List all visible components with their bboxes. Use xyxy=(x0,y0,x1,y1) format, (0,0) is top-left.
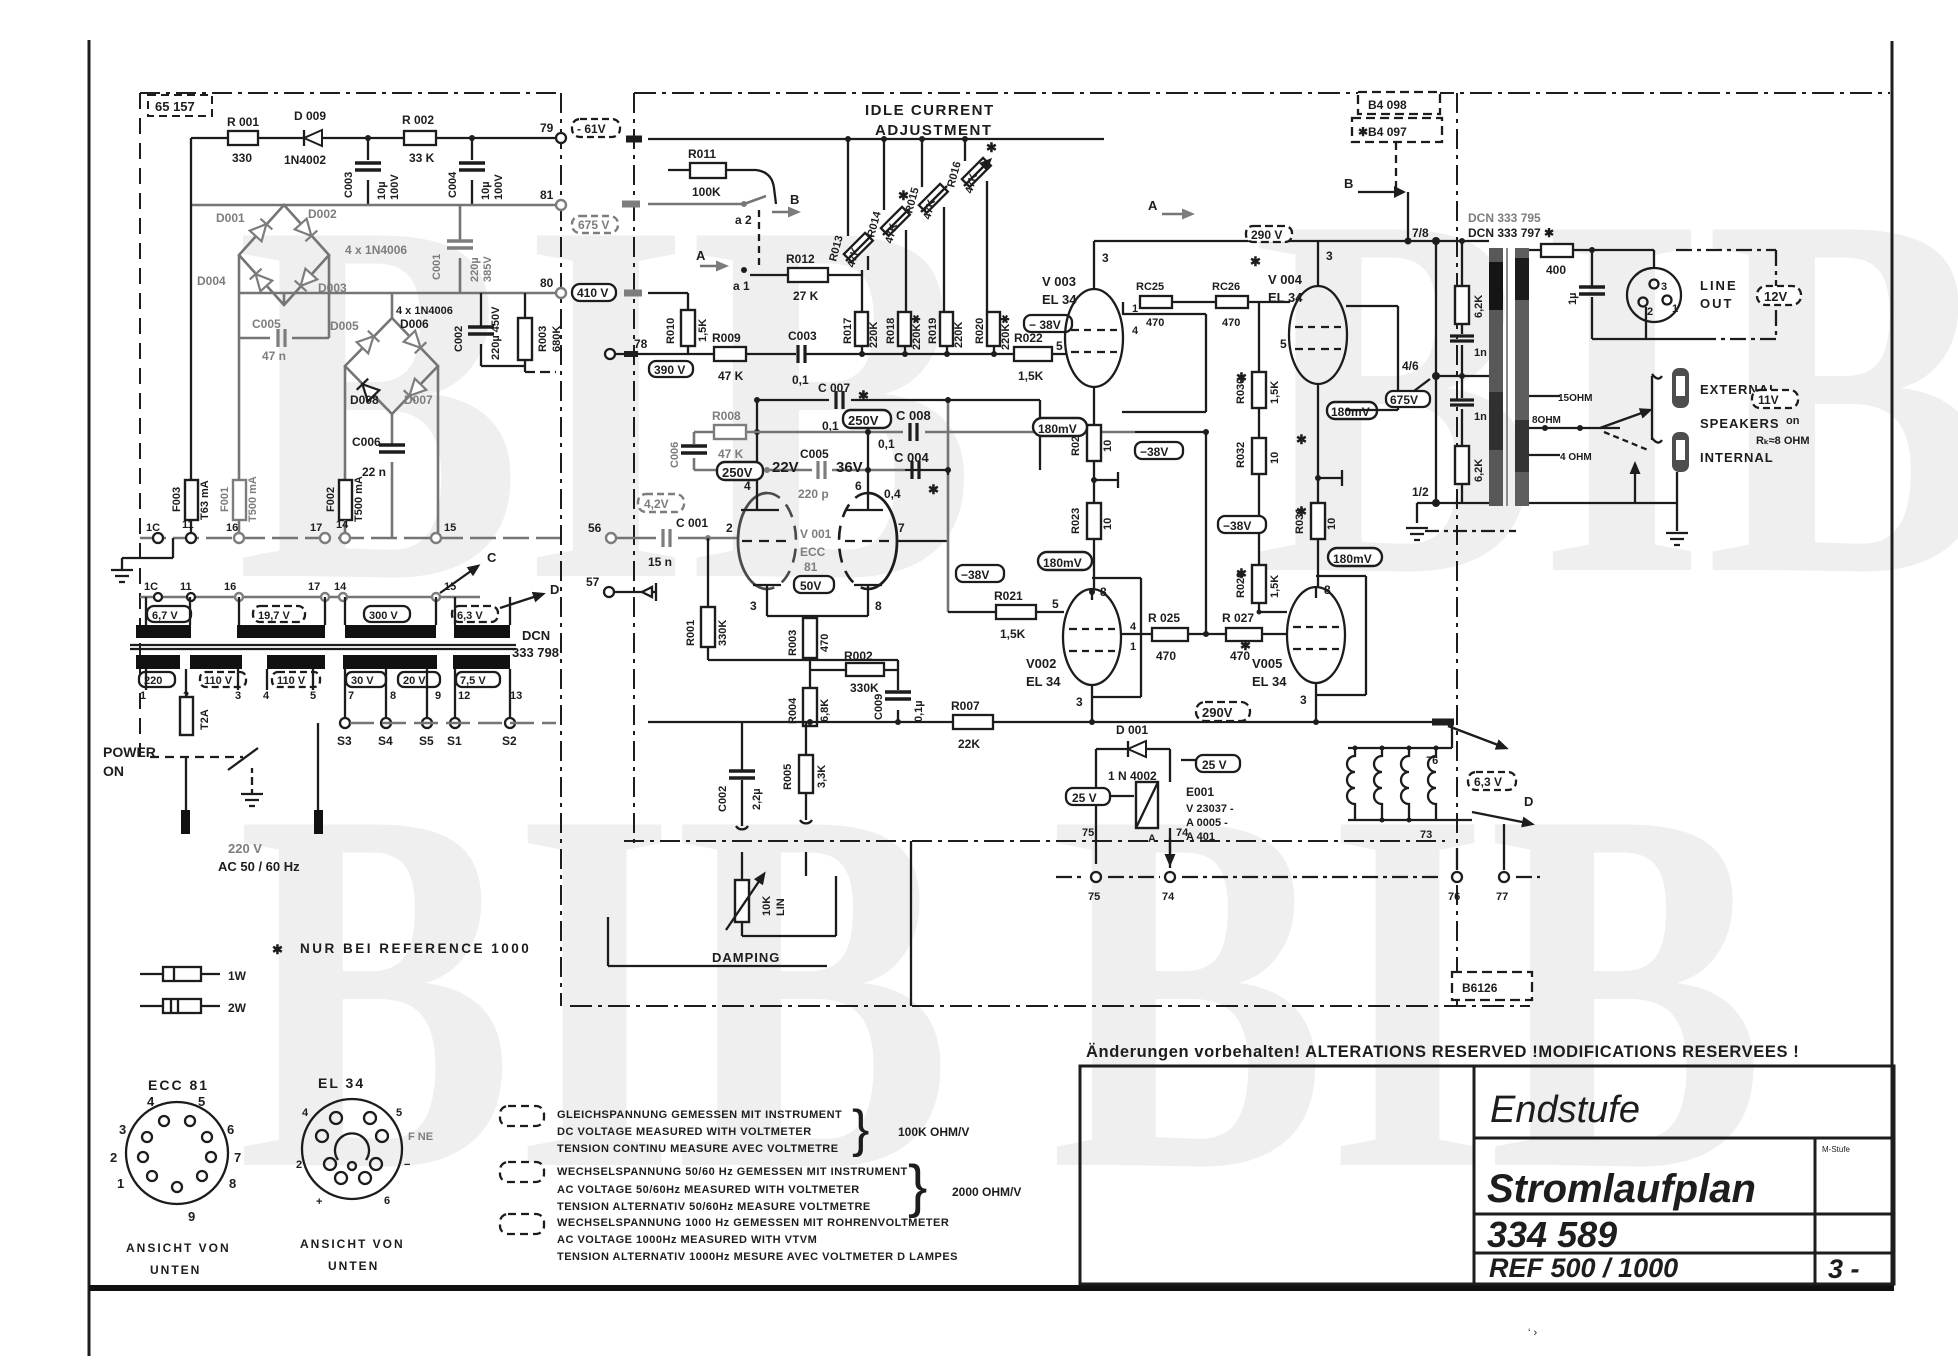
svg-text:6,3 V: 6,3 V xyxy=(457,610,483,622)
svg-text:220µ 450V: 220µ 450V xyxy=(490,306,502,360)
svg-text:Rₖ≈8 OHM: Rₖ≈8 OHM xyxy=(1756,435,1810,447)
svg-text:250V: 250V xyxy=(848,413,879,428)
svg-text:R 025: R 025 xyxy=(1148,611,1180,625)
svg-text:1,5K: 1,5K xyxy=(1018,369,1044,383)
svg-text:D: D xyxy=(1524,794,1533,809)
svg-text:5: 5 xyxy=(310,690,316,702)
svg-text:4,2V: 4,2V xyxy=(644,497,669,511)
svg-text:110 V: 110 V xyxy=(204,675,233,687)
svg-text:✱: ✱ xyxy=(1296,504,1307,519)
svg-text:4 x 1N4006: 4 x 1N4006 xyxy=(345,243,407,257)
svg-text:WECHSELSPANNUNG 1000 Hz GEME: WECHSELSPANNUNG 1000 Hz GEMESSEN MIT ROH… xyxy=(557,1217,949,1229)
svg-text:14: 14 xyxy=(334,581,347,593)
svg-text:100V: 100V xyxy=(493,174,505,200)
svg-text:TENSION ALTERNATIV 50/60Hz ME: TENSION ALTERNATIV 50/60Hz MEASURE VOLTM… xyxy=(557,1201,871,1213)
svg-text:S2: S2 xyxy=(502,734,517,748)
svg-text:17: 17 xyxy=(308,581,320,593)
svg-text:3: 3 xyxy=(750,599,757,613)
svg-text:47 K: 47 K xyxy=(718,447,744,461)
svg-text:F002: F002 xyxy=(325,487,337,512)
svg-text:675V: 675V xyxy=(1390,393,1418,407)
svg-text:74: 74 xyxy=(1162,891,1175,903)
svg-text:−38V: −38V xyxy=(961,568,989,582)
svg-text:3: 3 xyxy=(119,1122,126,1137)
svg-text:74: 74 xyxy=(1176,827,1189,839)
svg-text:3: 3 xyxy=(235,690,241,702)
svg-text:C: C xyxy=(487,550,497,565)
svg-text:75: 75 xyxy=(1082,827,1094,839)
svg-text:7: 7 xyxy=(234,1150,241,1165)
svg-text:NUR BEI REFERENCE 1000: NUR BEI REFERENCE 1000 xyxy=(300,941,531,956)
svg-text:9: 9 xyxy=(188,1209,195,1224)
svg-text:C001: C001 xyxy=(431,254,443,280)
svg-text:27 K: 27 K xyxy=(793,289,819,303)
svg-text:6,2K: 6,2K xyxy=(1473,459,1485,482)
svg-text:F003: F003 xyxy=(171,487,183,512)
svg-text:C005: C005 xyxy=(800,447,829,461)
svg-text:5: 5 xyxy=(1052,597,1059,611)
svg-text:2: 2 xyxy=(296,1159,302,1171)
svg-text:S4: S4 xyxy=(378,734,393,748)
svg-text:330K: 330K xyxy=(717,620,729,646)
svg-text:10: 10 xyxy=(1102,440,1114,452)
svg-text:T500 mA: T500 mA xyxy=(353,476,365,522)
svg-text:470: 470 xyxy=(1156,649,1176,663)
svg-text:180mV: 180mV xyxy=(1043,556,1082,570)
svg-text:DCN 333 797 ✱: DCN 333 797 ✱ xyxy=(1468,226,1554,240)
svg-text:6,7 V: 6,7 V xyxy=(152,610,178,622)
svg-text:4 x 1N4006: 4 x 1N4006 xyxy=(396,305,453,317)
svg-text:3 -: 3 - xyxy=(1828,1254,1860,1284)
svg-text:B: B xyxy=(1344,176,1353,191)
svg-text:47 K: 47 K xyxy=(718,369,744,383)
svg-text:4: 4 xyxy=(1130,621,1137,633)
svg-text:680K: 680K xyxy=(551,326,563,352)
svg-text:7/8: 7/8 xyxy=(1412,226,1429,240)
svg-text:12V: 12V xyxy=(1764,289,1787,304)
svg-text:S3: S3 xyxy=(337,734,352,748)
svg-text:RC25: RC25 xyxy=(1136,281,1164,293)
svg-text:D007: D007 xyxy=(404,393,433,407)
svg-text:1N4002: 1N4002 xyxy=(284,153,326,167)
svg-text:LINE: LINE xyxy=(1700,278,1738,293)
svg-text:100K OHM/V: 100K OHM/V xyxy=(898,1125,969,1139)
svg-text:5: 5 xyxy=(198,1094,205,1109)
svg-text:57: 57 xyxy=(586,575,600,589)
svg-text:A 401: A 401 xyxy=(1186,831,1215,843)
svg-text:8OHM: 8OHM xyxy=(1532,415,1561,426)
svg-text:EL 34: EL 34 xyxy=(1042,292,1077,307)
svg-text:SPEAKERS: SPEAKERS xyxy=(1700,416,1780,431)
svg-text:DCN 333 795: DCN 333 795 xyxy=(1468,211,1541,225)
svg-text:D 001: D 001 xyxy=(1116,723,1148,737)
svg-text:0,1: 0,1 xyxy=(878,437,895,451)
svg-text:5: 5 xyxy=(396,1107,402,1119)
svg-text:✱: ✱ xyxy=(1250,254,1261,269)
svg-text:Endstufe: Endstufe xyxy=(1490,1089,1640,1131)
svg-text:0,4: 0,4 xyxy=(884,487,901,501)
svg-text:2: 2 xyxy=(726,521,733,535)
svg-text:12: 12 xyxy=(458,690,470,702)
svg-text:8: 8 xyxy=(229,1176,236,1191)
svg-text:2000 OHM/V: 2000 OHM/V xyxy=(952,1185,1021,1199)
svg-text:333 798: 333 798 xyxy=(512,645,559,660)
svg-text:DCN: DCN xyxy=(522,628,550,643)
svg-text:T2A: T2A xyxy=(199,709,211,730)
svg-text:C003: C003 xyxy=(343,172,355,198)
svg-text:3: 3 xyxy=(1661,281,1667,293)
svg-text:73: 73 xyxy=(1420,829,1432,841)
svg-text:15: 15 xyxy=(444,522,456,534)
svg-text:8: 8 xyxy=(390,690,396,702)
svg-text:330: 330 xyxy=(232,151,252,165)
svg-text:WECHSELSPANNUNG 50/60 Hz GE: WECHSELSPANNUNG 50/60 Hz GEMESSEN MIT IN… xyxy=(557,1166,908,1178)
svg-text:UNTEN: UNTEN xyxy=(150,1263,201,1277)
svg-text:ECC: ECC xyxy=(800,545,826,559)
svg-text:76: 76 xyxy=(1426,755,1438,767)
svg-text:R012: R012 xyxy=(786,252,815,266)
svg-text:V 004: V 004 xyxy=(1268,272,1303,287)
svg-text:R010: R010 xyxy=(665,318,677,344)
svg-text:6,2K: 6,2K xyxy=(1473,295,1485,318)
svg-text:17: 17 xyxy=(310,522,322,534)
svg-text:15 n: 15 n xyxy=(648,555,672,569)
svg-text:16: 16 xyxy=(224,581,236,593)
svg-text:20 V: 20 V xyxy=(403,675,426,687)
svg-text:180mV: 180mV xyxy=(1038,422,1077,436)
svg-text:6: 6 xyxy=(855,479,862,493)
svg-text:R018: R018 xyxy=(885,318,897,344)
svg-text:25 V: 25 V xyxy=(1072,791,1097,805)
svg-text:81: 81 xyxy=(804,560,818,574)
svg-text:2: 2 xyxy=(1647,306,1653,318)
svg-text:A: A xyxy=(1148,198,1158,213)
svg-text:14: 14 xyxy=(336,519,349,531)
svg-text:10: 10 xyxy=(1326,518,1338,530)
svg-text:✱: ✱ xyxy=(928,482,939,497)
svg-text:C 004: C 004 xyxy=(894,450,929,465)
svg-text:V005: V005 xyxy=(1252,656,1282,671)
svg-text:1µ: 1µ xyxy=(1567,293,1579,305)
svg-text:75: 75 xyxy=(1088,891,1100,903)
svg-text:6: 6 xyxy=(227,1122,234,1137)
svg-text:8: 8 xyxy=(875,599,882,613)
svg-text:R 002: R 002 xyxy=(402,113,434,127)
svg-text:F001: F001 xyxy=(219,487,231,512)
svg-text:36V: 36V xyxy=(836,459,863,476)
svg-text:ANSICHT VON: ANSICHT VON xyxy=(300,1237,405,1251)
svg-text:TENSION CONTINU MEASURE AVEC: TENSION CONTINU MEASURE AVEC VOLTMETRE xyxy=(557,1143,839,1155)
svg-text:A: A xyxy=(696,248,706,263)
svg-text:INTERNAL: INTERNAL xyxy=(1700,450,1774,465)
svg-text:7,5 V: 7,5 V xyxy=(460,675,486,687)
svg-text:R017: R017 xyxy=(842,318,854,344)
svg-text:V 003: V 003 xyxy=(1042,274,1076,289)
svg-text:R008: R008 xyxy=(712,409,741,423)
svg-text:B6126: B6126 xyxy=(1462,981,1498,995)
svg-text:R005: R005 xyxy=(782,764,794,790)
svg-text:EL 34: EL 34 xyxy=(318,1075,365,1091)
svg-text:10: 10 xyxy=(1269,452,1281,464)
svg-text:ADJUSTMENT: ADJUSTMENT xyxy=(875,122,993,139)
svg-text:A: A xyxy=(1148,833,1156,845)
svg-text:7: 7 xyxy=(348,690,354,702)
svg-text:C002: C002 xyxy=(453,326,465,352)
svg-text:‘ ›: ‘ › xyxy=(1528,1327,1538,1339)
svg-text:8: 8 xyxy=(1324,583,1331,597)
svg-text:T63 mA: T63 mA xyxy=(199,480,211,520)
svg-text:V 23037 -: V 23037 - xyxy=(1186,803,1234,815)
svg-text:1,5K: 1,5K xyxy=(697,319,709,342)
svg-text:290 V: 290 V xyxy=(1251,228,1282,242)
svg-text:6,8K: 6,8K xyxy=(819,699,831,722)
svg-text:4: 4 xyxy=(263,690,270,702)
svg-text:M-Stufe: M-Stufe xyxy=(1822,1145,1851,1154)
svg-text:1n: 1n xyxy=(1474,411,1487,423)
svg-text:33 K: 33 K xyxy=(409,151,435,165)
svg-text:RC26: RC26 xyxy=(1212,281,1240,293)
svg-text:2,2µ: 2,2µ xyxy=(751,788,763,810)
svg-text:+: + xyxy=(316,1196,322,1208)
svg-text:22 n: 22 n xyxy=(362,465,386,479)
svg-text:220K: 220K xyxy=(868,322,880,348)
svg-text:R011: R011 xyxy=(688,147,716,161)
svg-text:ANSICHT VON: ANSICHT VON xyxy=(126,1241,231,1255)
svg-text:✱B4 097: ✱B4 097 xyxy=(1358,125,1407,139)
svg-text:D: D xyxy=(550,582,559,597)
svg-text:R020: R020 xyxy=(974,318,986,344)
svg-text:77: 77 xyxy=(1496,891,1508,903)
svg-text:79: 79 xyxy=(540,121,554,135)
svg-text:4 OHM: 4 OHM xyxy=(1560,452,1592,463)
svg-text:GLEICHSPANNUNG GEMESSEN MIT IN: GLEICHSPANNUNG GEMESSEN MIT INSTRUMENT xyxy=(557,1109,842,1121)
svg-text:5: 5 xyxy=(1280,337,1287,351)
svg-text:13: 13 xyxy=(510,690,522,702)
svg-text:a 2: a 2 xyxy=(735,213,752,227)
svg-text:C005: C005 xyxy=(252,317,281,331)
svg-text:R019: R019 xyxy=(927,318,939,344)
svg-text:330K: 330K xyxy=(850,681,879,695)
svg-text:1: 1 xyxy=(117,1176,124,1191)
svg-text:1: 1 xyxy=(1132,303,1138,315)
svg-text:1: 1 xyxy=(140,690,146,702)
svg-text:V002: V002 xyxy=(1026,656,1056,671)
svg-text:10µ: 10µ xyxy=(480,181,492,200)
svg-text:T500 mA: T500 mA xyxy=(247,476,259,522)
svg-text:D 009: D 009 xyxy=(294,109,326,123)
svg-text:11: 11 xyxy=(182,519,194,531)
svg-text:8: 8 xyxy=(1100,585,1107,599)
svg-text:A 0005 -: A 0005 - xyxy=(1186,817,1228,829)
svg-text:11V: 11V xyxy=(1758,393,1779,407)
svg-text:C006: C006 xyxy=(352,435,381,449)
svg-text:✱: ✱ xyxy=(1236,566,1247,581)
svg-text:✱: ✱ xyxy=(858,388,869,403)
svg-text:220K✱: 220K✱ xyxy=(911,314,923,350)
svg-text:11: 11 xyxy=(180,581,192,593)
svg-text:10: 10 xyxy=(1102,518,1114,530)
svg-text:R 001: R 001 xyxy=(227,115,259,129)
svg-text:IDLE CURRENT: IDLE CURRENT xyxy=(865,102,995,119)
svg-text:15OHM: 15OHM xyxy=(1558,393,1592,404)
svg-text:1: 1 xyxy=(1130,641,1136,653)
svg-text:1W: 1W xyxy=(228,969,247,983)
svg-text:220K✱: 220K✱ xyxy=(1000,314,1012,350)
svg-text:LIN: LIN xyxy=(775,898,787,916)
svg-text:100K: 100K xyxy=(692,185,721,199)
svg-text:180mV: 180mV xyxy=(1331,405,1370,419)
svg-text:−: − xyxy=(404,1159,410,1171)
svg-text:R003: R003 xyxy=(787,630,799,656)
svg-text:470: 470 xyxy=(1230,649,1250,663)
svg-text:DAMPING: DAMPING xyxy=(712,950,780,965)
svg-text:1n: 1n xyxy=(1474,347,1487,359)
svg-text:C009: C009 xyxy=(873,694,885,720)
svg-text:R003: R003 xyxy=(537,326,549,352)
svg-text:R001: R001 xyxy=(685,620,697,646)
svg-text:E001: E001 xyxy=(1186,785,1214,799)
svg-text:0,1: 0,1 xyxy=(792,373,809,387)
svg-text:C003: C003 xyxy=(788,329,817,343)
svg-text:1,5K: 1,5K xyxy=(1269,575,1281,598)
svg-text:5: 5 xyxy=(1056,339,1063,353)
svg-text:470: 470 xyxy=(1222,317,1240,329)
svg-text:D008: D008 xyxy=(350,393,379,407)
svg-text:C002: C002 xyxy=(717,786,729,812)
svg-text:R009: R009 xyxy=(712,331,741,345)
svg-text:19,7 V: 19,7 V xyxy=(258,610,290,622)
svg-text:390 V: 390 V xyxy=(654,363,685,377)
svg-text:1C: 1C xyxy=(146,522,160,534)
svg-text:4: 4 xyxy=(302,1107,309,1119)
svg-text:✱: ✱ xyxy=(272,942,283,957)
svg-text:on: on xyxy=(1786,415,1800,427)
svg-text:100V: 100V xyxy=(389,174,401,200)
svg-text:80: 80 xyxy=(540,276,554,290)
svg-text:9: 9 xyxy=(435,690,441,702)
svg-text:AC VOLTAGE 50/60Hz MEASURED: AC VOLTAGE 50/60Hz MEASURED WITH VOLTMET… xyxy=(557,1184,860,1196)
svg-text:F NE: F NE xyxy=(408,1131,433,1143)
svg-text:POWER: POWER xyxy=(103,744,156,760)
svg-text:65 157: 65 157 xyxy=(155,99,195,114)
svg-text:DC VOLTAGE MEASURED WITH VOLT: DC VOLTAGE MEASURED WITH VOLTMETER xyxy=(557,1126,812,1138)
svg-text:B4 098: B4 098 xyxy=(1368,98,1407,112)
svg-text:410 V: 410 V xyxy=(577,286,608,300)
svg-text:25 V: 25 V xyxy=(1202,758,1227,772)
svg-text:AC VOLTAGE 1000Hz MEASURED WI: AC VOLTAGE 1000Hz MEASURED WITH VTVM xyxy=(557,1234,817,1246)
svg-text:D002: D002 xyxy=(308,207,337,221)
svg-text:Stromlaufplan: Stromlaufplan xyxy=(1487,1167,1756,1211)
svg-text:3: 3 xyxy=(1076,695,1083,709)
svg-text:3: 3 xyxy=(1102,251,1109,265)
svg-text:D001: D001 xyxy=(216,211,245,225)
svg-text:EL 34: EL 34 xyxy=(1026,674,1061,689)
svg-text:EL 3‌4: EL 3‌4 xyxy=(1252,674,1287,689)
svg-text:−38V: −38V xyxy=(1140,445,1168,459)
svg-text:C 007: C 007 xyxy=(818,381,850,395)
svg-text:S5: S5 xyxy=(419,734,434,748)
svg-text:1C: 1C xyxy=(144,581,158,593)
svg-text:81: 81 xyxy=(540,188,554,202)
svg-text:30 V: 30 V xyxy=(351,675,374,687)
svg-text:220K: 220K xyxy=(953,322,965,348)
svg-text:300 V: 300 V xyxy=(369,610,398,622)
svg-text:UNTEN: UNTEN xyxy=(328,1259,379,1273)
svg-text:78: 78 xyxy=(634,337,648,351)
svg-text:10µ: 10µ xyxy=(376,181,388,200)
svg-text:4/6: 4/6 xyxy=(1402,359,1419,373)
svg-text:R002: R002 xyxy=(844,649,873,663)
svg-text:180mV: 180mV xyxy=(1333,552,1372,566)
svg-text:}: } xyxy=(908,1154,927,1219)
svg-text:6,3 V: 6,3 V xyxy=(1474,775,1502,789)
svg-text:3: 3 xyxy=(1326,249,1333,263)
svg-text:3: 3 xyxy=(1300,693,1307,707)
svg-text:BIB: BIB xyxy=(1252,108,1958,683)
svg-text:ECC 81: ECC 81 xyxy=(148,1077,209,1093)
svg-text:OUT: OUT xyxy=(1700,296,1733,311)
svg-text:R032: R032 xyxy=(1235,442,1247,468)
svg-text:6: 6 xyxy=(384,1195,390,1207)
svg-text:S1: S1 xyxy=(447,734,462,748)
svg-text:REF 500 / 1000: REF 500 / 1000 xyxy=(1489,1253,1678,1283)
svg-text:1: 1 xyxy=(1672,303,1678,315)
svg-text:2: 2 xyxy=(110,1150,117,1165)
svg-text:220 p: 220 p xyxy=(798,487,829,501)
svg-text:AC 50 / 60 Hz: AC 50 / 60 Hz xyxy=(218,859,300,874)
svg-text:✱: ✱ xyxy=(1236,370,1247,385)
svg-text:a 1: a 1 xyxy=(733,279,750,293)
svg-text:C006: C006 xyxy=(669,442,681,468)
svg-text:4: 4 xyxy=(147,1094,155,1109)
svg-text:−38V: −38V xyxy=(1223,519,1251,533)
svg-text:C004: C004 xyxy=(447,171,459,198)
svg-text:470: 470 xyxy=(819,634,831,652)
svg-text:47 n: 47 n xyxy=(262,349,286,363)
svg-text:✱: ✱ xyxy=(898,188,909,203)
svg-text:D006: D006 xyxy=(400,317,429,331)
svg-text:R 027: R 027 xyxy=(1222,611,1254,625)
svg-text:D004: D004 xyxy=(197,274,226,288)
svg-text:✱: ✱ xyxy=(986,140,997,155)
svg-text:470: 470 xyxy=(1146,317,1164,329)
svg-text:− 38V: − 38V xyxy=(1029,318,1061,332)
svg-text:D005: D005 xyxy=(330,319,359,333)
svg-text:1/2: 1/2 xyxy=(1412,485,1429,499)
svg-text:ON: ON xyxy=(103,763,124,779)
svg-text:C 001: C 001 xyxy=(676,516,708,530)
svg-text:220 V: 220 V xyxy=(228,841,262,856)
svg-text:R023: R023 xyxy=(1070,508,1082,534)
svg-text:2W: 2W xyxy=(228,1001,247,1015)
svg-text:}: } xyxy=(852,1100,869,1158)
svg-text:675 V: 675 V xyxy=(578,218,609,232)
svg-text:290V: 290V xyxy=(1202,705,1233,720)
svg-text:10K: 10K xyxy=(761,896,773,916)
svg-text:400: 400 xyxy=(1546,263,1566,277)
svg-text:1,5K: 1,5K xyxy=(1269,381,1281,404)
svg-text:385V: 385V xyxy=(482,256,494,282)
svg-text:56: 56 xyxy=(588,521,602,535)
svg-text:- 61V: - 61V xyxy=(577,122,606,136)
svg-text:1,5K: 1,5K xyxy=(1000,627,1026,641)
svg-text:76: 76 xyxy=(1448,891,1460,903)
svg-text:50V: 50V xyxy=(800,579,821,593)
svg-text:R004: R004 xyxy=(787,697,799,724)
svg-text:B: B xyxy=(790,192,799,207)
svg-text:110 V: 110 V xyxy=(277,675,306,687)
svg-text:250V: 250V xyxy=(722,465,753,480)
